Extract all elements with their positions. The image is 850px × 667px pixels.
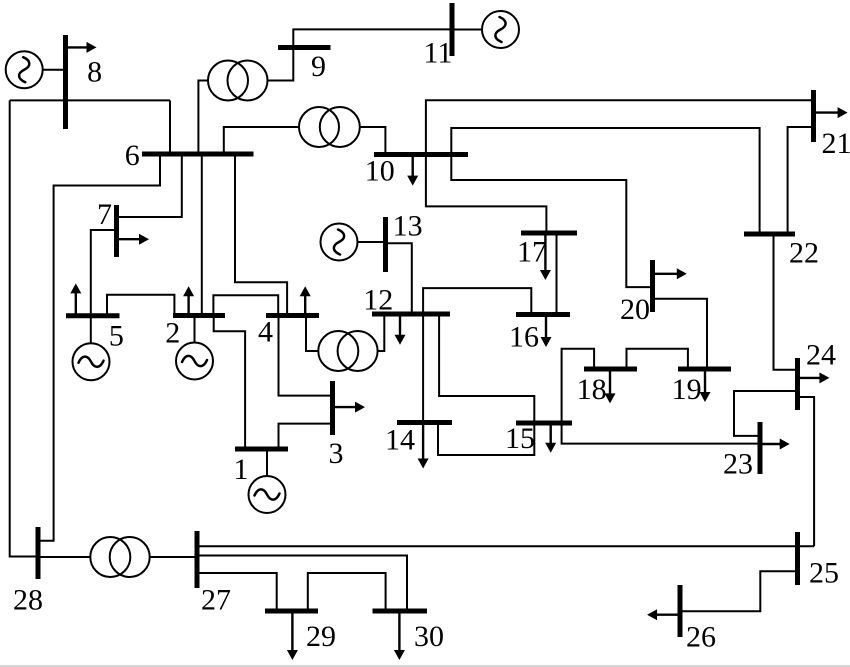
svg-text:8: 8 xyxy=(87,56,102,89)
svg-text:15: 15 xyxy=(505,422,535,455)
svg-text:28: 28 xyxy=(13,584,43,617)
svg-text:6: 6 xyxy=(125,139,140,172)
svg-text:4: 4 xyxy=(258,316,273,349)
svg-text:9: 9 xyxy=(311,50,326,83)
svg-text:2: 2 xyxy=(165,317,180,350)
svg-text:14: 14 xyxy=(385,424,415,457)
svg-text:10: 10 xyxy=(365,155,395,188)
svg-text:25: 25 xyxy=(809,557,839,590)
svg-text:16: 16 xyxy=(509,321,539,354)
svg-text:21: 21 xyxy=(822,127,850,160)
svg-text:19: 19 xyxy=(672,373,702,406)
svg-text:24: 24 xyxy=(806,339,836,372)
svg-text:30: 30 xyxy=(414,620,444,653)
svg-text:22: 22 xyxy=(789,237,819,270)
svg-text:11: 11 xyxy=(424,36,453,69)
svg-text:13: 13 xyxy=(393,210,423,243)
svg-text:29: 29 xyxy=(306,620,336,653)
svg-text:26: 26 xyxy=(686,621,716,654)
svg-text:20: 20 xyxy=(620,293,650,326)
svg-text:5: 5 xyxy=(109,319,124,352)
svg-text:18: 18 xyxy=(577,373,607,406)
svg-text:12: 12 xyxy=(363,284,393,317)
svg-text:3: 3 xyxy=(329,437,344,470)
svg-text:27: 27 xyxy=(201,584,231,617)
svg-text:23: 23 xyxy=(723,448,753,481)
svg-text:7: 7 xyxy=(97,198,112,231)
svg-text:17: 17 xyxy=(517,236,547,269)
svg-text:1: 1 xyxy=(234,453,249,486)
